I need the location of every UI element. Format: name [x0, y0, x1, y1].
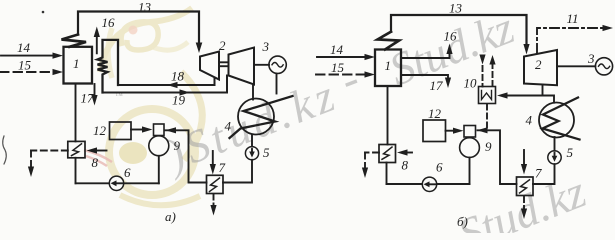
svg-text:3: 3: [587, 51, 595, 66]
wire: line 11 dash-dot: [537, 11, 613, 53]
svg-text:4: 4: [526, 113, 533, 128]
arrow into 8: [87, 147, 107, 170]
makeup box 12: [93, 122, 131, 140]
svg-text:17: 17: [81, 91, 95, 106]
edge squiggle: [3, 136, 7, 164]
svg-text:б): б): [457, 214, 468, 229]
watermark pink strokes: [84, 150, 112, 166]
arrow 16b: [401, 29, 457, 59]
svg-text:11: 11: [567, 11, 579, 26]
svg-text:12: 12: [93, 123, 107, 138]
svg-text:17: 17: [430, 78, 444, 93]
deaerator tank 9b: [460, 138, 492, 158]
arrow from 12: [131, 126, 153, 132]
wire: main steam line 13b: [391, 1, 530, 55]
svg-text:14: 14: [17, 40, 31, 55]
arrow: extraction to 10: [497, 92, 543, 98]
generator 3: [262, 39, 287, 74]
arrow 15 air dashed: [0, 58, 63, 76]
dashed drain below 7b: [521, 197, 527, 220]
wire: boiler b down to 8b: [387, 86, 389, 145]
turbine 2 HP section: [200, 52, 219, 80]
watermark text row 1: [157, 2, 521, 182]
svg-text:8: 8: [402, 158, 409, 173]
economizer 8b: [379, 145, 396, 163]
svg-text:9: 9: [174, 138, 181, 153]
svg-text:1: 1: [385, 58, 392, 73]
superheater zigzag b: [378, 32, 400, 50]
wire: condenser to pump: [251, 135, 253, 147]
turbine shaft coupling: [219, 62, 229, 66]
svg-text:8: 8: [92, 155, 99, 170]
svg-text:5: 5: [263, 145, 270, 160]
wire: 8b down: [386, 163, 388, 185]
wire: exhaust to condenser: [252, 85, 254, 100]
wire: line 19 hot reheat: [103, 76, 228, 108]
arrow: extraction into 7b: [521, 150, 527, 175]
arrow: extraction steam into 7: [210, 151, 216, 175]
svg-text:5: 5: [567, 145, 574, 160]
arrow 14b: [317, 42, 375, 60]
economizer 8: [68, 141, 85, 157]
wire: bottom feed line b: [387, 183, 470, 185]
superheater zigzag: [62, 35, 87, 47]
turbine 2b: [524, 50, 557, 85]
svg-text:16: 16: [102, 15, 116, 30]
svg-text:а): а): [165, 209, 176, 224]
deaerator head box b: [464, 126, 476, 138]
generator shaft: [254, 64, 269, 66]
deaerator head box: [154, 124, 165, 136]
wire: boiler down to 8: [75, 84, 77, 142]
wire: generator down line: [276, 74, 278, 94]
svg-text:10: 10: [464, 76, 478, 91]
wire: pump to heater 7: [223, 160, 252, 183]
pump 6: [109, 165, 131, 191]
svg-text:7: 7: [219, 160, 226, 175]
svg-text:14: 14: [330, 42, 344, 57]
heater 7: [207, 160, 226, 194]
pump 5b: [548, 145, 574, 164]
reheater loop with zigzag: [98, 40, 119, 93]
svg-text:18: 18: [171, 69, 185, 84]
svg-text:6: 6: [124, 165, 131, 180]
generator 3b: [587, 51, 613, 75]
wire: pump to heater 7b: [533, 164, 555, 184]
dashed outlet from 8b: [362, 153, 379, 179]
generator shaft b: [557, 65, 595, 67]
heat consumer 10: [464, 76, 496, 104]
heater 7b: [517, 166, 543, 196]
svg-text:19: 19: [172, 93, 186, 108]
dashed network water arrows above 10: [479, 55, 495, 87]
wire: heater 7 to deaerator: [165, 127, 207, 182]
makeup box 12b: [423, 106, 446, 142]
watermark logo swirl: [100, 8, 202, 205]
arrow into 8b: [397, 149, 412, 172]
svg-text:4: 4: [225, 119, 232, 134]
wire: line 18 cold reheat: [118, 69, 215, 89]
wire: tank 9 down: [158, 156, 160, 184]
svg-text:9: 9: [485, 139, 492, 154]
pump 5: [245, 145, 270, 160]
svg-text:16: 16: [444, 29, 458, 44]
svg-text:15: 15: [331, 60, 345, 75]
wire: main steam line 13: [78, 0, 202, 53]
arrow 14 fuel: [1, 40, 63, 59]
dashed outlet from 8: [28, 151, 68, 178]
dashed drain from 10: [486, 105, 488, 129]
turbine 2 LP section: [219, 38, 254, 85]
svg-text:6: 6: [436, 160, 443, 175]
wire: 8 down: [75, 158, 77, 184]
boiler 1: [64, 47, 93, 84]
wire: condenser to pump b: [554, 137, 556, 151]
wire: bottom feed line: [76, 182, 159, 184]
arrow 16 flue gas: [94, 15, 115, 53]
svg-text:12: 12: [428, 106, 442, 121]
svg-text:1: 1: [73, 56, 80, 71]
ink dot: [42, 11, 45, 14]
svg-text:15: 15: [18, 58, 32, 73]
deaerator tank 9: [149, 136, 181, 156]
condenser 4b: [526, 98, 580, 140]
arrow from 12b: [446, 128, 464, 134]
dashed drain below 7: [210, 194, 216, 216]
wire: heater 7b to deaerator: [477, 127, 517, 184]
svg-text:7: 7: [535, 166, 542, 181]
arrow 17b: [401, 75, 451, 93]
svg-text:13: 13: [449, 1, 463, 16]
svg-text:2: 2: [219, 38, 226, 53]
pump 6b: [422, 160, 443, 192]
wire: tank 9b down: [469, 158, 471, 185]
arrow 15b dashed: [316, 60, 375, 78]
condenser 4: [225, 96, 293, 138]
svg-text:2: 2: [535, 57, 542, 72]
svg-text:13: 13: [138, 0, 152, 15]
arrow 17: [81, 84, 98, 106]
wire: turbine exhaust b: [542, 85, 544, 96]
svg-text:3: 3: [262, 39, 270, 54]
boiler 1b: [375, 50, 401, 87]
wire: jog to condenser b: [543, 96, 555, 103]
